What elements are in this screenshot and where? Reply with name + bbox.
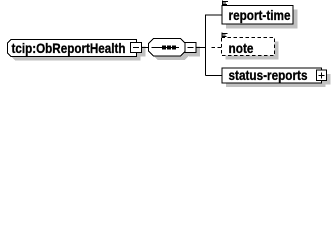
shadow of note <box>226 42 279 60</box>
dashed branch to note: dash 2 <box>218 47 222 49</box>
svg-text:note: note <box>229 40 254 56</box>
sequence line <box>152 47 180 49</box>
shadow of report-time <box>226 10 298 29</box>
wire element to sequence <box>142 47 149 49</box>
expand button of status-reports <box>317 70 327 81</box>
sequence item square 1 <box>162 46 166 50</box>
element box tcip:ObReportHealth <box>8 40 137 57</box>
wire sequence to trunk <box>196 47 206 49</box>
sequence compositor octagon <box>149 39 186 57</box>
sequence item square 3 <box>172 46 176 50</box>
branch to report-time <box>206 14 223 16</box>
shadow of element tcip:ObReportHealth <box>12 44 141 61</box>
svg-text:status-reports: status-reports <box>229 67 308 83</box>
plus sign <box>319 74 325 76</box>
element box status-reports <box>222 68 322 83</box>
content icon of report-time <box>223 1 229 7</box>
optional element box note (dashed) <box>222 38 275 56</box>
minus sign <box>133 47 139 49</box>
minus sign <box>188 47 194 49</box>
element box report-time <box>222 6 293 25</box>
svg-text:report-time: report-time <box>229 7 291 23</box>
sequence item square 2 <box>167 46 171 50</box>
dashed branch to note: dash 1 <box>212 47 216 49</box>
collapse button of sequence <box>185 43 196 53</box>
svg-text:tcip:ObReportHealth: tcip:ObReportHealth <box>12 40 126 56</box>
collapse button of tcip:ObReportHealth <box>131 43 142 53</box>
trunk vertical line <box>205 15 207 76</box>
content icon of note <box>222 33 228 39</box>
branch to status-reports <box>206 75 223 77</box>
shadow of status-reports <box>226 72 326 87</box>
shadow of sequence compositor <box>153 43 190 61</box>
